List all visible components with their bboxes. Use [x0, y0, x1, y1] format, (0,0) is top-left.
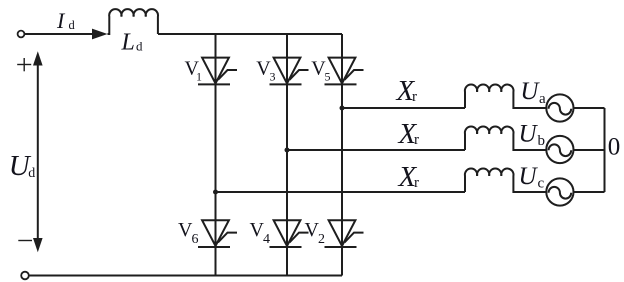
ac source Ub — [546, 136, 573, 163]
wire bottom bus — [29, 275, 342, 277]
svg-text:2: 2 — [318, 232, 325, 247]
node phase B junction — [285, 148, 290, 153]
svg-text:r: r — [414, 132, 419, 148]
wire bridge leg 2 — [286, 34, 288, 276]
thyristor V5 — [325, 58, 364, 85]
svg-text:b: b — [538, 133, 546, 149]
svg-text:r: r — [412, 89, 417, 105]
inductor Ld — [108, 9, 159, 34]
svg-text:a: a — [539, 91, 546, 107]
wire bridge leg 1 — [215, 34, 217, 276]
svg-text:d: d — [28, 166, 35, 181]
terminal DC+ — [18, 31, 25, 38]
svg-text:3: 3 — [270, 70, 276, 84]
svg-text:4: 4 — [263, 232, 270, 247]
inductor Xr phase A — [465, 85, 546, 108]
svg-text:U: U — [519, 120, 539, 147]
terminal DC- — [21, 272, 29, 280]
svg-text:0: 0 — [608, 134, 621, 161]
wire bridge leg 3 — [341, 34, 343, 276]
svg-text:L: L — [121, 30, 135, 56]
wire top bus — [158, 33, 342, 35]
thyristor V1 — [198, 58, 237, 85]
ac source Ua — [546, 94, 573, 121]
wire neutral bus — [604, 108, 606, 192]
svg-text:1: 1 — [196, 70, 202, 84]
voltage arrow Ud — [33, 51, 43, 252]
svg-text:U: U — [520, 78, 540, 105]
wire dc+ to arrow — [25, 33, 93, 35]
current arrow Id — [92, 29, 108, 40]
ac source Uc — [546, 178, 573, 205]
svg-text:d: d — [136, 38, 143, 53]
inductor Xr phase B — [465, 127, 546, 150]
wire phase C right — [574, 191, 605, 193]
svg-text:5: 5 — [325, 70, 331, 84]
svg-text:I: I — [56, 8, 66, 33]
thyristor V3 — [270, 58, 309, 85]
thyristor V6 — [198, 220, 237, 247]
node phase C junction — [213, 190, 218, 195]
svg-text:r: r — [414, 175, 419, 191]
wire phase A — [342, 107, 465, 109]
node phase A junction — [340, 106, 345, 111]
label minus — [18, 240, 32, 242]
thyristor V4 — [270, 220, 309, 247]
svg-text:6: 6 — [192, 232, 199, 247]
svg-text:c: c — [538, 176, 545, 192]
svg-text:d: d — [69, 18, 76, 32]
wire phase C — [216, 191, 466, 193]
inductor Xr phase C — [465, 169, 546, 192]
wire phase A right — [574, 107, 605, 109]
label + — [17, 58, 31, 71]
wire phase B — [287, 149, 465, 151]
thyristor V2 — [325, 220, 364, 247]
wire phase B right — [574, 149, 605, 151]
svg-text:U: U — [519, 163, 539, 190]
